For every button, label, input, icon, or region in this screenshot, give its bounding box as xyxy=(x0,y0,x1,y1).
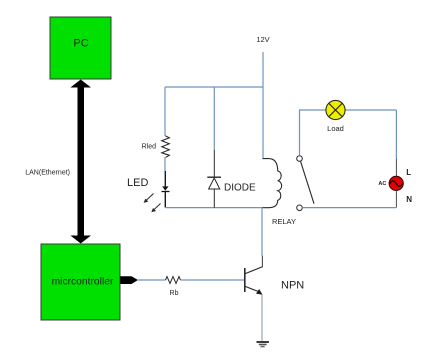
wire diode branch upper xyxy=(213,87,215,177)
block PC xyxy=(50,17,111,79)
wire Rled to LED xyxy=(164,157,166,186)
wire AC to bottom corner xyxy=(395,190,397,208)
wire emitter xyxy=(261,295,263,342)
wire 12V vertical xyxy=(262,52,264,159)
svg-text:Rled: Rled xyxy=(142,144,157,151)
wire bottom rail xyxy=(165,207,263,209)
svg-text:PC: PC xyxy=(73,38,88,50)
svg-text:RELAY: RELAY xyxy=(272,217,296,226)
svg-text:NPN: NPN xyxy=(281,280,304,292)
block micrcontroller xyxy=(41,244,120,320)
svg-text:Rb: Rb xyxy=(170,290,179,297)
wire bottom rail right loop xyxy=(302,207,396,209)
relay coil K1 xyxy=(263,159,282,208)
wire base segment 1 xyxy=(138,279,166,281)
pin stub microcontroller output xyxy=(120,276,138,284)
svg-text:micrcontroller: micrcontroller xyxy=(52,277,114,288)
wire LED to rail xyxy=(164,192,166,208)
diode D2 xyxy=(207,177,221,189)
svg-text:LED: LED xyxy=(127,177,148,189)
svg-text:DIODE: DIODE xyxy=(224,183,256,194)
wire diode to rail xyxy=(213,189,215,208)
wire right side upper xyxy=(395,110,397,176)
wire collector xyxy=(261,208,263,268)
wire base segment 2 xyxy=(181,279,245,281)
svg-text:AC: AC xyxy=(378,181,386,187)
wire switch top to rail xyxy=(300,110,397,156)
svg-text:LAN(Ethernet): LAN(Ethernet) xyxy=(25,170,70,177)
resistor Rled xyxy=(162,136,170,157)
lamp Load xyxy=(326,100,345,119)
relay switch contacts xyxy=(297,156,314,211)
LAN(Ethernet) link arrow xyxy=(70,80,91,244)
ground xyxy=(257,341,269,347)
LED D1 xyxy=(144,186,170,212)
svg-text:Load: Load xyxy=(327,124,344,133)
AC source xyxy=(389,176,403,190)
transistor Q1 NPN xyxy=(245,267,263,295)
wire left branch upper xyxy=(164,87,166,136)
resistor Rb xyxy=(166,277,181,284)
svg-text:L: L xyxy=(406,168,411,177)
wire top rail xyxy=(165,86,263,88)
svg-text:N: N xyxy=(406,195,412,204)
svg-text:12V: 12V xyxy=(256,35,269,44)
